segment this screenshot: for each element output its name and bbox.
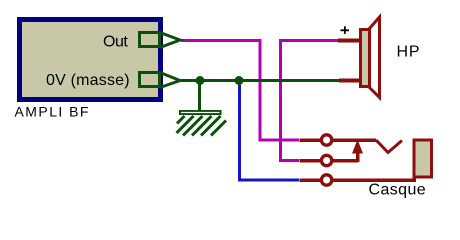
svg-text:AMPLI BF: AMPLI BF: [15, 104, 90, 120]
svg-text:Out: Out: [103, 34, 128, 51]
svg-text:0V (masse): 0V (masse): [46, 72, 130, 89]
svg-text:Casque: Casque: [369, 182, 427, 199]
svg-text:HP: HP: [397, 44, 421, 61]
